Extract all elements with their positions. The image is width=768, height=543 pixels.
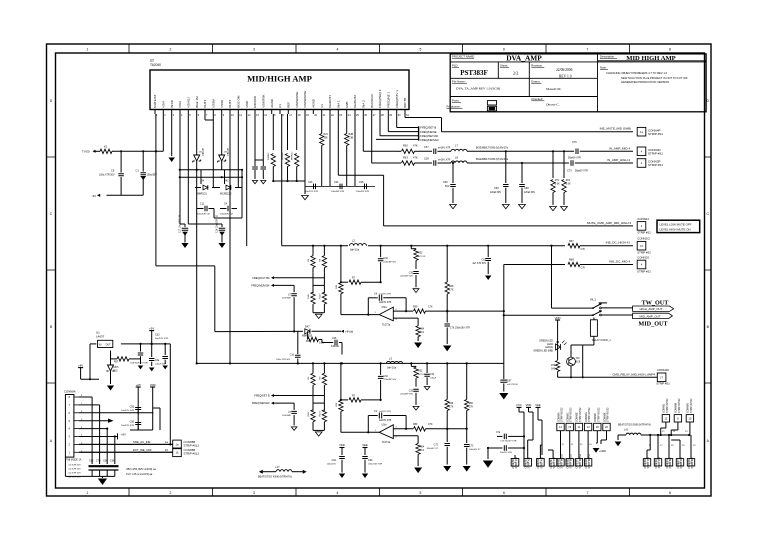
- svg-text:CONN5G: CONN5G: [538, 458, 540, 468]
- svg-text:4K7 DF: 4K7 DF: [418, 256, 426, 258]
- border frame outer: [47, 44, 712, 496]
- svg-text:C74 50a/6V X7R: C74 50a/6V X7R: [500, 441, 517, 443]
- svg-text:10a/16V X7R: 10a/16V X7R: [305, 191, 318, 193]
- svg-text:IN3/D: IN3/D: [170, 99, 174, 108]
- wire bus y267: [156, 265, 215, 267]
- wire: [137, 426, 139, 431]
- svg-text:a=16V X7R: a=16V X7R: [438, 158, 451, 161]
- svg-text:PM/R4.7: PM/R4.7: [291, 151, 293, 160]
- svg-text:C7K: C7K: [428, 423, 433, 426]
- wire HIGH channel input: [312, 362, 314, 364]
- wire R64b gnd: [417, 454, 419, 466]
- wire pin25 to IN_AMP: [362, 114, 364, 151]
- svg-text:1: 1: [87, 48, 89, 52]
- svg-text:2: 2: [170, 48, 172, 52]
- svg-text:10a/16V X7R: 10a/16V X7R: [121, 410, 134, 412]
- svg-text:U2: U2: [150, 59, 154, 63]
- svg-text:4K1: 4K1: [420, 332, 425, 334]
- connector CONN6 bottom row: [557, 459, 564, 466]
- ground: [519, 205, 526, 209]
- connector CONN6L-N row: [662, 415, 669, 422]
- capacitor C76b: [444, 324, 450, 326]
- capacitor C61: [487, 246, 489, 257]
- svg-text:D47: D47: [305, 326, 310, 329]
- svg-text:VDD: VDD: [150, 383, 156, 387]
- svg-text:VIN1: VIN1: [178, 101, 182, 108]
- svg-text:220a/BP 50V: 220a/BP 50V: [400, 276, 413, 278]
- wire pin3: [171, 114, 173, 156]
- svg-text:FREQ/SEQ 2: FREQ/SEQ 2: [378, 89, 382, 108]
- wire bus a: [180, 169, 242, 171]
- level note box: [657, 220, 700, 232]
- wire: [112, 150, 163, 152]
- svg-text:100a/6V X7: 100a/6V X7: [427, 448, 439, 450]
- title proto checkbox: [487, 101, 496, 105]
- svg-text:100a/16V: 100a/16V: [327, 463, 337, 465]
- wire: [514, 455, 516, 459]
- svg-text:tail X7R 50V: tail X7R 50V: [69, 472, 82, 475]
- svg-text:4: 4: [337, 491, 339, 495]
- svg-text:R46: R46: [449, 403, 454, 405]
- svg-text:MBR1D1: MBR1D1: [197, 193, 207, 196]
- ground: [339, 474, 345, 478]
- svg-text:RLB: RLB: [308, 412, 310, 417]
- connector CONN2I: [637, 241, 646, 250]
- svg-text:C33: C33: [409, 273, 414, 275]
- capacitor C5: [120, 151, 122, 172]
- svg-text:R62: R62: [403, 144, 408, 148]
- svg-text:R1/9K2: R1/9K2: [268, 152, 270, 160]
- svg-text:INE_DC_MID 4: INE_DC_MID 4: [609, 260, 630, 264]
- wire bus small: [255, 159, 263, 161]
- inductor L3: [386, 361, 404, 366]
- wire relay feed mid: [503, 265, 505, 316]
- svg-text:MIC/O/D: MIC/O/D: [253, 95, 257, 108]
- wire bus b: [180, 176, 242, 178]
- svg-text:CONN5D: CONN5D: [513, 458, 515, 468]
- svg-text:OUT: OUT: [106, 344, 112, 347]
- svg-text:L1?: L1?: [275, 466, 280, 469]
- resistor R57: [117, 357, 129, 361]
- svg-text:Production:: Production:: [447, 105, 461, 109]
- svg-text:VSSK: VSSK: [220, 100, 224, 108]
- svg-text:MI/B: MI/B: [345, 102, 349, 108]
- svg-text:4a7 X7R 50V: 4a7 X7R 50V: [472, 263, 486, 265]
- svg-text:STRIP IN5: STRIP IN5: [692, 457, 694, 469]
- wire pin11: [246, 114, 248, 246]
- wire: [487, 448, 489, 459]
- svg-text:STRIP IN 5S2: STRIP IN 5S2: [589, 453, 591, 468]
- svg-text:C61: C61: [481, 259, 486, 262]
- svg-text:CONN6U: CONN6U: [689, 458, 691, 468]
- svg-text:CONN6C: CONN6C: [568, 412, 570, 422]
- connector CONN5B b: [173, 448, 182, 457]
- capacitor C72: [446, 429, 448, 442]
- svg-text:U5/a: U5/a: [381, 424, 387, 427]
- capacitor bank3: [164, 344, 166, 355]
- svg-text:R70: R70: [551, 365, 556, 367]
- wire: [195, 187, 201, 189]
- svg-text:VIN5: VIN5: [245, 101, 249, 108]
- svg-text:FREQ/SET B: FREQ/SET B: [254, 394, 270, 398]
- svg-text:STRIP #S1: STRIP #S1: [648, 163, 663, 167]
- svg-text:C14 10a X7R 1.B: C14 10a X7R 1.B: [217, 215, 219, 233]
- wire: [446, 311, 448, 322]
- svg-text:R57: R57: [114, 362, 119, 364]
- wire pin19: [304, 114, 306, 186]
- ground: [443, 466, 451, 472]
- ground: [593, 448, 600, 453]
- svg-text:1: 1: [87, 491, 89, 495]
- svg-text:2/2: 2/2: [513, 71, 518, 76]
- capacitor C14: [188, 223, 222, 225]
- svg-text:tail X7R 50V: tail X7R 50V: [69, 468, 82, 471]
- svg-text:4K1: 4K1: [420, 450, 425, 452]
- svg-text:1/LV: L25 (a x1/2C9) aa: 1/LV: L25 (a x1/2C9) aa: [126, 473, 153, 476]
- wire op out MID: [447, 310, 504, 312]
- resistor R68: [568, 262, 580, 266]
- svg-text:D10: D10: [114, 370, 119, 372]
- svg-text:C59: C59: [494, 187, 499, 190]
- svg-text:VEE: VEE: [362, 443, 368, 447]
- diode LED2: [556, 344, 561, 350]
- wire bus feed: [196, 170, 198, 364]
- svg-text:STRIP #S2: STRIP #S2: [659, 456, 661, 468]
- ground: [550, 207, 557, 211]
- wire: [593, 336, 595, 345]
- svg-text:1a/16V X7B: 1a/16V X7B: [379, 420, 392, 422]
- svg-text:1a/16V X7B: 1a/16V X7B: [379, 302, 392, 304]
- svg-text:STRIP #S2: STRIP #S2: [529, 456, 531, 468]
- title production checkbox: [487, 106, 496, 111]
- svg-text:tail X7R 50V: tail X7R 50V: [69, 476, 82, 479]
- connector CONN2G: [637, 260, 646, 269]
- diode DZ1: [196, 114, 198, 155]
- svg-text:1a/16V X7R: 1a/16V X7R: [379, 293, 391, 295]
- svg-text:C04: C04: [103, 460, 108, 463]
- resistor R29: [308, 337, 319, 341]
- svg-text:VEE: VEE: [535, 403, 541, 407]
- node +9Vdd: [341, 330, 344, 333]
- wire: [90, 343, 96, 345]
- svg-text:Proto:: Proto:: [452, 99, 460, 103]
- svg-text:STRIP #S2: STRIP #S2: [637, 251, 651, 255]
- svg-text:C45: C45: [359, 181, 364, 184]
- svg-text:CMD_RELAY_MID_HIGH_AMP4: CMD_RELAY_MID_HIGH_AMP4: [612, 372, 655, 376]
- wire: [241, 170, 243, 188]
- wire: [447, 428, 467, 430]
- svg-text:VDD: VDD: [526, 403, 532, 407]
- svg-text:BC8: BC8: [576, 360, 581, 363]
- ground: [181, 243, 188, 248]
- ground: [561, 207, 568, 211]
- wire pin24: [354, 114, 356, 186]
- svg-text:FREQ/NE/SAD: FREQ/NE/SAD: [420, 138, 438, 142]
- svg-text:STRIP #S1: STRIP #S1: [648, 151, 663, 155]
- wire: [580, 264, 633, 266]
- svg-text:INE_DC_HIGH 41: INE_DC_HIGH 41: [606, 241, 631, 245]
- connector CONN4P: [637, 127, 646, 136]
- svg-text:CONN2J: CONN2J: [637, 217, 649, 221]
- svg-text:CONN6Q: CONN6Q: [656, 458, 658, 468]
- svg-text:STRIP #S2: STRIP #S2: [541, 456, 543, 468]
- svg-text:C76 100a/16V X7R: C76 100a/16V X7R: [450, 327, 470, 329]
- svg-text:C72: C72: [434, 444, 439, 447]
- svg-text:CONN6B: CONN6B: [558, 458, 560, 468]
- svg-text:MID HIGH AMP: MID HIGH AMP: [626, 55, 675, 62]
- svg-text:3: 3: [253, 491, 255, 495]
- ground: [218, 243, 225, 248]
- svg-text:6: 6: [503, 48, 505, 52]
- svg-text:C32: C32: [155, 334, 160, 337]
- ground: [169, 158, 175, 162]
- svg-text:BEAT/STGO/ON5 (MTR/47A): BEAT/STGO/ON5 (MTR/47A): [618, 424, 651, 427]
- svg-text:VS/MTBK: VS/MTBK: [262, 94, 266, 107]
- resistor R71: [552, 151, 554, 178]
- wire INE_DC_HIGH: [282, 245, 565, 247]
- filter channel MID: [312, 246, 314, 256]
- wire: [107, 194, 144, 196]
- svg-text:FREQ/NE/M B4: FREQ/NE/M B4: [251, 284, 270, 288]
- wire vertical x447: [446, 246, 448, 282]
- capacitor C73: [488, 447, 503, 449]
- svg-text:PM/R4.7: PM/R4.7: [282, 151, 284, 160]
- resistor R08: [445, 282, 449, 294]
- svg-text:CONN8A: CONN8A: [64, 390, 76, 394]
- svg-text:VIN/SEN/SE: VIN/SEN/SE: [303, 91, 307, 108]
- wire: [570, 345, 572, 357]
- svg-text:+5V: +5V: [149, 326, 154, 330]
- svg-text:CHANGING OBJECT PROBLEMS 4.7 T: CHANGING OBJECT PROBLEMS 4.7 TO REV 1.0: [606, 71, 668, 75]
- svg-text:R63: R63: [403, 155, 408, 159]
- svg-text:C7K: C7K: [428, 306, 433, 309]
- svg-text:C7K: C7K: [469, 406, 474, 408]
- wire MUTE_CMD: [384, 225, 633, 227]
- capacitor bank2: [151, 344, 153, 357]
- svg-text:STRIP #S2: STRIP #S2: [554, 456, 556, 468]
- wire R64 gnd: [417, 337, 419, 341]
- svg-text:TL072a: TL072a: [382, 441, 391, 444]
- diode DZ3: [111, 358, 118, 360]
- ground: [450, 205, 457, 209]
- capacitor C30: [297, 331, 299, 354]
- wire pin30 bend: [396, 114, 398, 128]
- capacitor C37: [434, 149, 436, 155]
- connector CONN5B a: [173, 440, 182, 449]
- svg-text:100a/6V X7: 100a/6V X7: [469, 449, 481, 451]
- svg-text:C90: C90: [368, 459, 373, 462]
- wire pin7 drop: [212, 132, 214, 188]
- svg-text:Note:: Note:: [600, 66, 607, 70]
- wire: [570, 366, 572, 377]
- wire: [665, 422, 667, 428]
- svg-text:VCC: VCC: [516, 403, 522, 407]
- svg-text:LEVEL LOW MUTE OFF: LEVEL LOW MUTE OFF: [660, 223, 692, 227]
- svg-text:C38: C38: [424, 158, 429, 161]
- svg-text:CONN6O: CONN6O: [645, 458, 647, 468]
- wire pin1 long: [155, 114, 157, 266]
- connector CONN6O-U row: [643, 459, 650, 466]
- wire pin15 drop: [281, 114, 283, 246]
- wire: [467, 150, 574, 152]
- capacitor C38: [434, 160, 436, 166]
- wire pin22 drop: [329, 114, 331, 186]
- svg-text:STRIP IN 5S2: STRIP IN 5S2: [580, 407, 582, 422]
- svg-text:RL1: RL1: [590, 297, 596, 301]
- svg-text:MID_OUT: MID_OUT: [638, 320, 668, 327]
- svg-text:BGE/MB/LT/ON5 (M) Rx/37a: BGE/MB/LT/ON5 (M) Rx/37a: [476, 146, 509, 149]
- wire main bus: [197, 362, 504, 364]
- wire: [92, 475, 115, 477]
- svg-text:0aH 10a: 0aH 10a: [350, 249, 360, 252]
- connector CONN2J: [637, 222, 646, 231]
- relay contact A: [588, 307, 593, 309]
- svg-text:C58: C58: [524, 187, 529, 190]
- svg-text:C1: C1: [136, 168, 140, 172]
- svg-text:STRIP IN 5S2: STRIP IN 5S2: [571, 453, 573, 468]
- svg-text:C33: C33: [409, 390, 414, 392]
- svg-text:VS/ADJ: VS/ADJ: [187, 97, 191, 108]
- svg-text:FREQ/NE/SE: FREQ/NE/SE: [420, 130, 436, 134]
- svg-text:U5/a: U5/a: [381, 306, 387, 309]
- resistor R01: [563, 151, 565, 178]
- wire pin9 long: [229, 114, 231, 363]
- wire: [557, 342, 559, 352]
- svg-text:12aFN0F: 12aFN0F: [282, 298, 292, 300]
- svg-text:C91: C91: [332, 459, 337, 462]
- svg-text:CONN6I: CONN6I: [595, 413, 597, 422]
- svg-text:RL17: RL17: [319, 410, 321, 416]
- capacitor C43: [314, 184, 316, 190]
- output arrow HIGH_AMP_OUT: [633, 306, 674, 311]
- svg-text:C43: C43: [308, 181, 313, 184]
- svg-text:C76: C76: [572, 141, 577, 144]
- capacitor C77: [466, 429, 468, 443]
- wire: [96, 150, 101, 152]
- svg-text:STRIP IN 5S2: STRIP IN 5S2: [598, 407, 600, 422]
- wire IN_AMP_HIGH: [398, 162, 401, 164]
- wire: [215, 330, 294, 332]
- svg-text:INA 2: INA 2: [362, 100, 366, 108]
- svg-text:R29: R29: [306, 341, 311, 343]
- svg-text:R66: R66: [469, 403, 474, 405]
- svg-text:+GND: +GND: [599, 450, 606, 453]
- capacitor C17: [180, 223, 185, 225]
- svg-text:STRIP IN 5S2: STRIP IN 5S2: [667, 398, 669, 413]
- wire: [305, 185, 375, 187]
- svg-text:5: 5: [420, 491, 422, 495]
- svg-text:BGE OM: BGE OM: [237, 95, 241, 108]
- svg-text:STRIP IN 5S2: STRIP IN 5S2: [562, 407, 564, 422]
- svg-text:RELAY=CONC_1: RELAY=CONC_1: [592, 339, 611, 342]
- svg-text:STRIP #S1: STRIP #S1: [648, 132, 663, 136]
- wire: [580, 150, 633, 152]
- svg-text:STRIP #S2: STRIP #S2: [637, 231, 651, 235]
- svg-text:C44: C44: [334, 181, 339, 184]
- svg-text:5C2: 5C2: [445, 185, 450, 188]
- svg-text:220a/BP 50V: 220a/BP 50V: [383, 261, 396, 263]
- diode D4: [200, 170, 202, 184]
- ground: [414, 343, 422, 349]
- capacitor C75: [571, 160, 573, 166]
- svg-text:STRIP IN 5S2: STRIP IN 5S2: [589, 407, 591, 422]
- wire INE_MUTE_MID: [442, 131, 634, 133]
- ground: [615, 442, 622, 447]
- svg-text:100a/DR C07: 100a/DR C07: [197, 214, 211, 216]
- wire IN_AMP_MID: [398, 150, 401, 152]
- svg-text:STRIP #S2: STRIP #S2: [656, 381, 670, 385]
- ground: [443, 346, 451, 352]
- wire: [415, 162, 433, 164]
- svg-text:Masetti M.: Masetti M.: [546, 87, 561, 91]
- svg-text:R32: R32: [418, 369, 423, 372]
- svg-text:120aF MN: 120aF MN: [524, 192, 535, 194]
- svg-text:STRIP IN 5S2: STRIP IN 5S2: [608, 407, 610, 422]
- capacitor C1: [142, 151, 144, 171]
- svg-text:IN_AMP_MID 4: IN_AMP_MID 4: [609, 146, 630, 150]
- capacitor C50: [452, 163, 454, 183]
- svg-text:C34: C34: [430, 374, 435, 376]
- svg-text:100a X7R 50V: 100a X7R 50V: [99, 174, 115, 177]
- svg-text:Checked:: Checked:: [531, 97, 543, 101]
- svg-text:R68: R68: [569, 259, 574, 262]
- wire EXT_INE: [79, 451, 173, 453]
- svg-text:VDD: VDD: [339, 443, 345, 447]
- svg-text:+9Vdd: +9Vdd: [345, 330, 354, 334]
- svg-text:tail X7R 50V: tail X7R 50V: [69, 464, 82, 467]
- output arrow MID_AMP_OUT: [633, 313, 673, 318]
- ground: [414, 468, 422, 474]
- diode D41: [224, 170, 226, 184]
- wire pin29 bend: [387, 114, 389, 132]
- svg-text:+8V: +8V: [78, 363, 83, 367]
- svg-text:Description:: Description:: [600, 55, 615, 59]
- svg-text:R59: R59: [413, 423, 418, 426]
- svg-text:47K: 47K: [413, 155, 418, 159]
- svg-text:GENERATED PRODUCTION VERSION: GENERATED PRODUCTION VERSION: [621, 80, 669, 84]
- svg-text:R64: R64: [420, 446, 425, 448]
- wire INE_DC_MID: [504, 264, 565, 266]
- connector CONN3P: [637, 159, 646, 168]
- svg-text:22/06/2006: 22/06/2006: [556, 68, 573, 72]
- svg-text:C11: C11: [200, 203, 205, 206]
- ground: [107, 386, 114, 391]
- svg-text:R32: R32: [418, 252, 423, 255]
- svg-text:CONN6H: CONN6H: [586, 458, 588, 468]
- connector CONN5D-F row: [511, 459, 519, 467]
- capacitor C26: [335, 340, 337, 346]
- capacitor C22: [262, 160, 264, 166]
- ground: [483, 461, 493, 468]
- svg-text:C3a: C3a: [155, 360, 160, 362]
- svg-text:C75: C75: [567, 170, 572, 173]
- wire: [593, 318, 595, 320]
- svg-text:SNE_AC_INE: SNE_AC_INE: [133, 440, 151, 444]
- svg-text:3: 3: [253, 48, 255, 52]
- ground: [149, 368, 155, 372]
- inductor L2: [348, 243, 368, 248]
- svg-text:C17 10a X7R 1.B: C17 10a X7R 1.B: [180, 215, 182, 233]
- svg-text:MUTE/ST: MUTE/ST: [153, 94, 157, 108]
- svg-text:BGE/MB/LT/ON5 (M) Rx/37a: BGE/MB/LT/ON5 (M) Rx/37a: [476, 158, 509, 161]
- svg-text:C72: C72: [469, 445, 474, 448]
- connector CONN8A pins: [74, 396, 79, 398]
- ground: [98, 479, 107, 485]
- svg-text:VIN/SENSE: VIN/SENSE: [295, 92, 299, 108]
- wire: [617, 435, 619, 440]
- svg-text:Ottone C.: Ottone C.: [546, 103, 560, 107]
- wire relay feed high: [551, 246, 553, 308]
